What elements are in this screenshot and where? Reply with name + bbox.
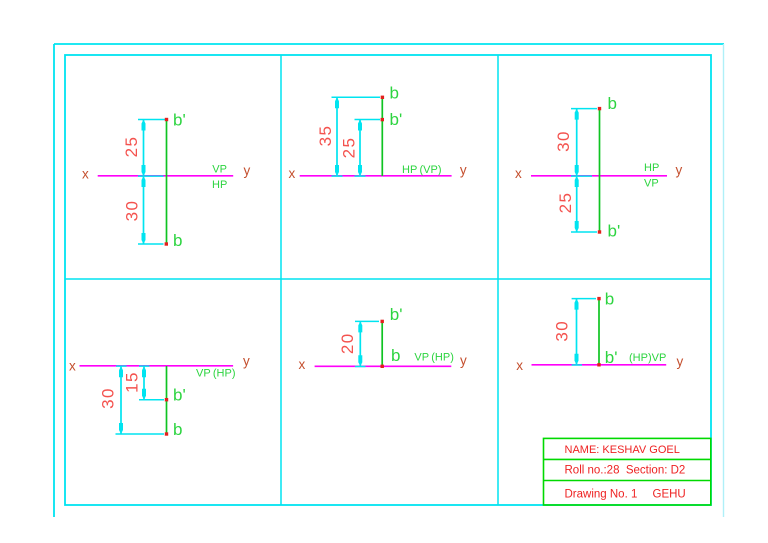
svg-text:HP (VP): HP (VP)	[402, 164, 441, 176]
svg-text:b: b	[608, 94, 617, 113]
svg-text:HP: HP	[644, 162, 659, 174]
panel4 dimension line 30 (XY to b)	[120, 366, 122, 434]
panel3 dimension line 25 (XY to b')	[576, 176, 578, 232]
svg-text:b': b'	[390, 305, 403, 324]
panel4 point b'	[165, 398, 168, 401]
panel5 dimension line 20 (XY to b')	[359, 321, 361, 366]
panel divider horizontal	[65, 278, 711, 280]
svg-text:b: b	[173, 231, 182, 250]
svg-text:15: 15	[122, 371, 141, 393]
svg-text:y: y	[677, 354, 684, 369]
svg-text:25: 25	[122, 136, 141, 158]
panel6 XY reference line	[532, 364, 667, 366]
panel divider vertical 2	[497, 55, 499, 505]
panel6 extension tick at b level	[572, 298, 596, 300]
panel1 dimension extension tick at b level	[138, 243, 164, 245]
panel2 extension tick 35 at XY	[332, 175, 343, 177]
panel6 point b	[597, 297, 600, 300]
svg-text:Roll no.:28 Section: D2: Roll no.:28 Section: D2	[565, 465, 686, 477]
svg-text:b': b'	[608, 221, 621, 240]
panel4 extension tick at b' level	[139, 399, 164, 401]
panel2 point b'	[381, 118, 384, 121]
panel3 XY reference line	[531, 175, 667, 177]
panel1 dimension extension tick at b' level	[138, 119, 166, 121]
svg-text:x: x	[299, 357, 306, 372]
svg-text:30: 30	[98, 387, 117, 409]
svg-text:GEHU: GEHU	[653, 489, 686, 501]
title block divider 1	[544, 458, 711, 460]
svg-text:b: b	[173, 420, 182, 439]
svg-text:30: 30	[123, 200, 142, 222]
panel2 point b	[381, 96, 384, 99]
panel3 point b	[598, 107, 601, 110]
svg-text:y: y	[460, 163, 467, 178]
panel6 point b' on XY	[597, 363, 600, 366]
svg-text:25: 25	[556, 192, 575, 214]
svg-text:x: x	[515, 166, 522, 181]
panel2 extension tick at b' level	[355, 119, 381, 121]
panel2 extension tick 25 at XY	[355, 175, 366, 177]
panel2 dimension line 35 (XY to b)	[336, 97, 338, 176]
svg-text:VP (HP): VP (HP)	[196, 368, 235, 380]
outer sheet border top	[54, 43, 724, 45]
panel6 dimension line 30 (XY to b)	[576, 299, 578, 365]
panel3 extension tick at XY level	[571, 175, 592, 177]
panel1 XY reference line	[98, 175, 234, 177]
svg-text:b': b'	[390, 110, 403, 129]
svg-text:b: b	[390, 84, 399, 103]
panel3 extension tick at b' level	[571, 231, 597, 233]
svg-text:HP: HP	[212, 179, 227, 191]
svg-text:b: b	[391, 346, 400, 365]
panel2 extension tick at b level	[332, 96, 381, 98]
panel5 extension tick at XY	[355, 366, 366, 368]
panel1 point b	[165, 242, 168, 245]
svg-text:35: 35	[316, 125, 335, 147]
panel4 extension tick 15 at XY	[139, 365, 150, 367]
svg-text:25: 25	[339, 137, 358, 159]
svg-text:b': b'	[605, 348, 618, 367]
panel4 XY reference line	[80, 365, 234, 367]
svg-text:VP: VP	[644, 177, 659, 189]
panel2 dimension line 25 (XY to b')	[359, 120, 361, 177]
panel3 extension tick at b level	[571, 108, 597, 110]
panel5 XY reference line	[315, 365, 452, 367]
panel3 dimension line 30 (XY to b)	[576, 109, 578, 176]
svg-text:Drawing No. 1: Drawing No. 1	[565, 489, 638, 501]
panel5 projector line b'-b	[381, 321, 383, 366]
panel4 dimension line 15 (XY to b')	[143, 366, 145, 399]
panel1 dimension line 25 (XY to b')	[143, 120, 145, 177]
svg-text:b': b'	[173, 385, 186, 404]
panel1 projector line b'-b	[166, 120, 168, 245]
svg-text:b': b'	[173, 111, 186, 130]
svg-text:NAME: KESHAV GOEL: NAME: KESHAV GOEL	[565, 444, 680, 456]
panel1 point b'	[165, 118, 168, 121]
svg-text:VP (HP): VP (HP)	[414, 352, 453, 364]
panel2 XY reference line	[300, 175, 452, 177]
panel4 point b	[165, 432, 168, 435]
outer sheet border left	[53, 44, 55, 517]
svg-text:b: b	[605, 290, 614, 309]
panel3 point b'	[598, 230, 601, 233]
panel4 extension tick at b level	[116, 433, 165, 435]
panel5 point b on XY	[381, 365, 384, 368]
svg-text:x: x	[82, 167, 89, 182]
svg-text:x: x	[69, 358, 76, 373]
svg-text:VP: VP	[212, 163, 227, 175]
panel4 extension tick 30 at XY	[116, 365, 127, 367]
svg-text:y: y	[243, 353, 250, 368]
panel5 extension tick at b' level	[355, 320, 379, 322]
title block frame	[544, 438, 711, 505]
inner drawing frame	[65, 55, 711, 505]
svg-text:y: y	[460, 353, 467, 368]
panel1 dimension line 30 (XY to b)	[143, 176, 145, 244]
panel4 projector line XY-b	[166, 366, 168, 434]
svg-text:y: y	[676, 163, 683, 178]
title block divider 2	[544, 480, 711, 482]
panel1 dimension extension tick at XY level	[138, 175, 164, 177]
svg-text:x: x	[516, 358, 523, 373]
panel6 projector line b-XY	[598, 299, 600, 365]
svg-text:30: 30	[554, 130, 573, 152]
svg-text:x: x	[289, 166, 296, 181]
svg-text:y: y	[244, 163, 251, 178]
panel6 extension tick at XY	[572, 364, 582, 366]
panel divider vertical 1	[280, 55, 282, 505]
panel5 point b'	[381, 320, 384, 323]
svg-text:(HP)VP: (HP)VP	[629, 352, 666, 364]
outer sheet border right (faint)	[723, 44, 725, 517]
panel3 projector line b-b'	[599, 109, 601, 232]
svg-text:30: 30	[552, 320, 571, 342]
panel2 projector line b-XY	[381, 97, 383, 176]
svg-text:20: 20	[338, 332, 357, 354]
